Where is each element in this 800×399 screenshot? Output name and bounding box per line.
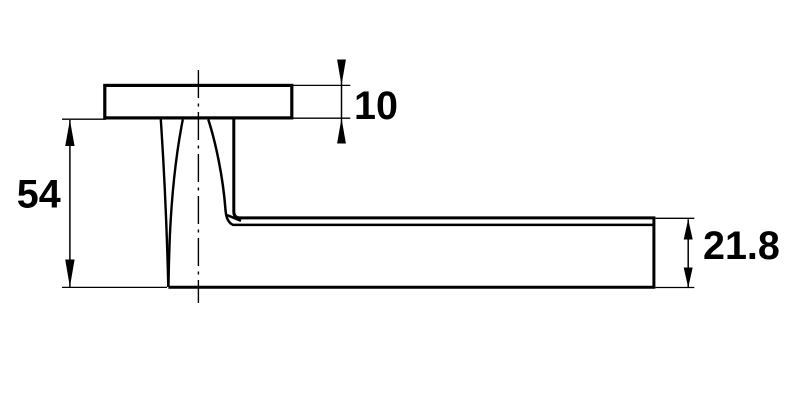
dim 10 dimension line (341, 60, 343, 144)
dim 21.8 dimension line (687, 219, 689, 287)
rosette (rose plate) rectangle (105, 85, 292, 118)
neck-to-grip inner fillet chord (227, 215, 241, 221)
dim 21.8 extension line top (655, 217, 694, 219)
dim 54 extension line top (62, 118, 106, 120)
dim 10 arrowhead top (outside, pointing down) (337, 60, 346, 86)
neck left inner curve (169, 120, 183, 288)
svg-text:21.8: 21.8 (703, 224, 780, 268)
dim 54 arrowhead top (65, 120, 74, 146)
dim 54 dimension line (69, 120, 71, 287)
dim 21.8 arrowhead bottom (inside, pointing down) (684, 268, 693, 288)
svg-text:10: 10 (354, 84, 398, 128)
dim 21.8 arrowhead top (inside, pointing up) (684, 219, 693, 239)
dim 54 arrowhead bottom (65, 260, 74, 288)
neck right edge + grip bar outline (top, right end, bottom) (168, 120, 654, 288)
dim 10 extension line top (292, 84, 351, 86)
neck right inner curve + lower grip silhouette line (208, 120, 652, 225)
dim 54 extension line bottom (62, 286, 167, 288)
dim 21.8 extension line bottom (655, 287, 694, 289)
dim 10 extension line bottom (292, 117, 351, 119)
dim 10 arrowhead bottom (outside, pointing up) (337, 118, 346, 143)
centerline (dash-dot) through handle neck (197, 70, 199, 303)
neck left outer curve (161, 120, 169, 288)
svg-text:54: 54 (17, 173, 61, 217)
